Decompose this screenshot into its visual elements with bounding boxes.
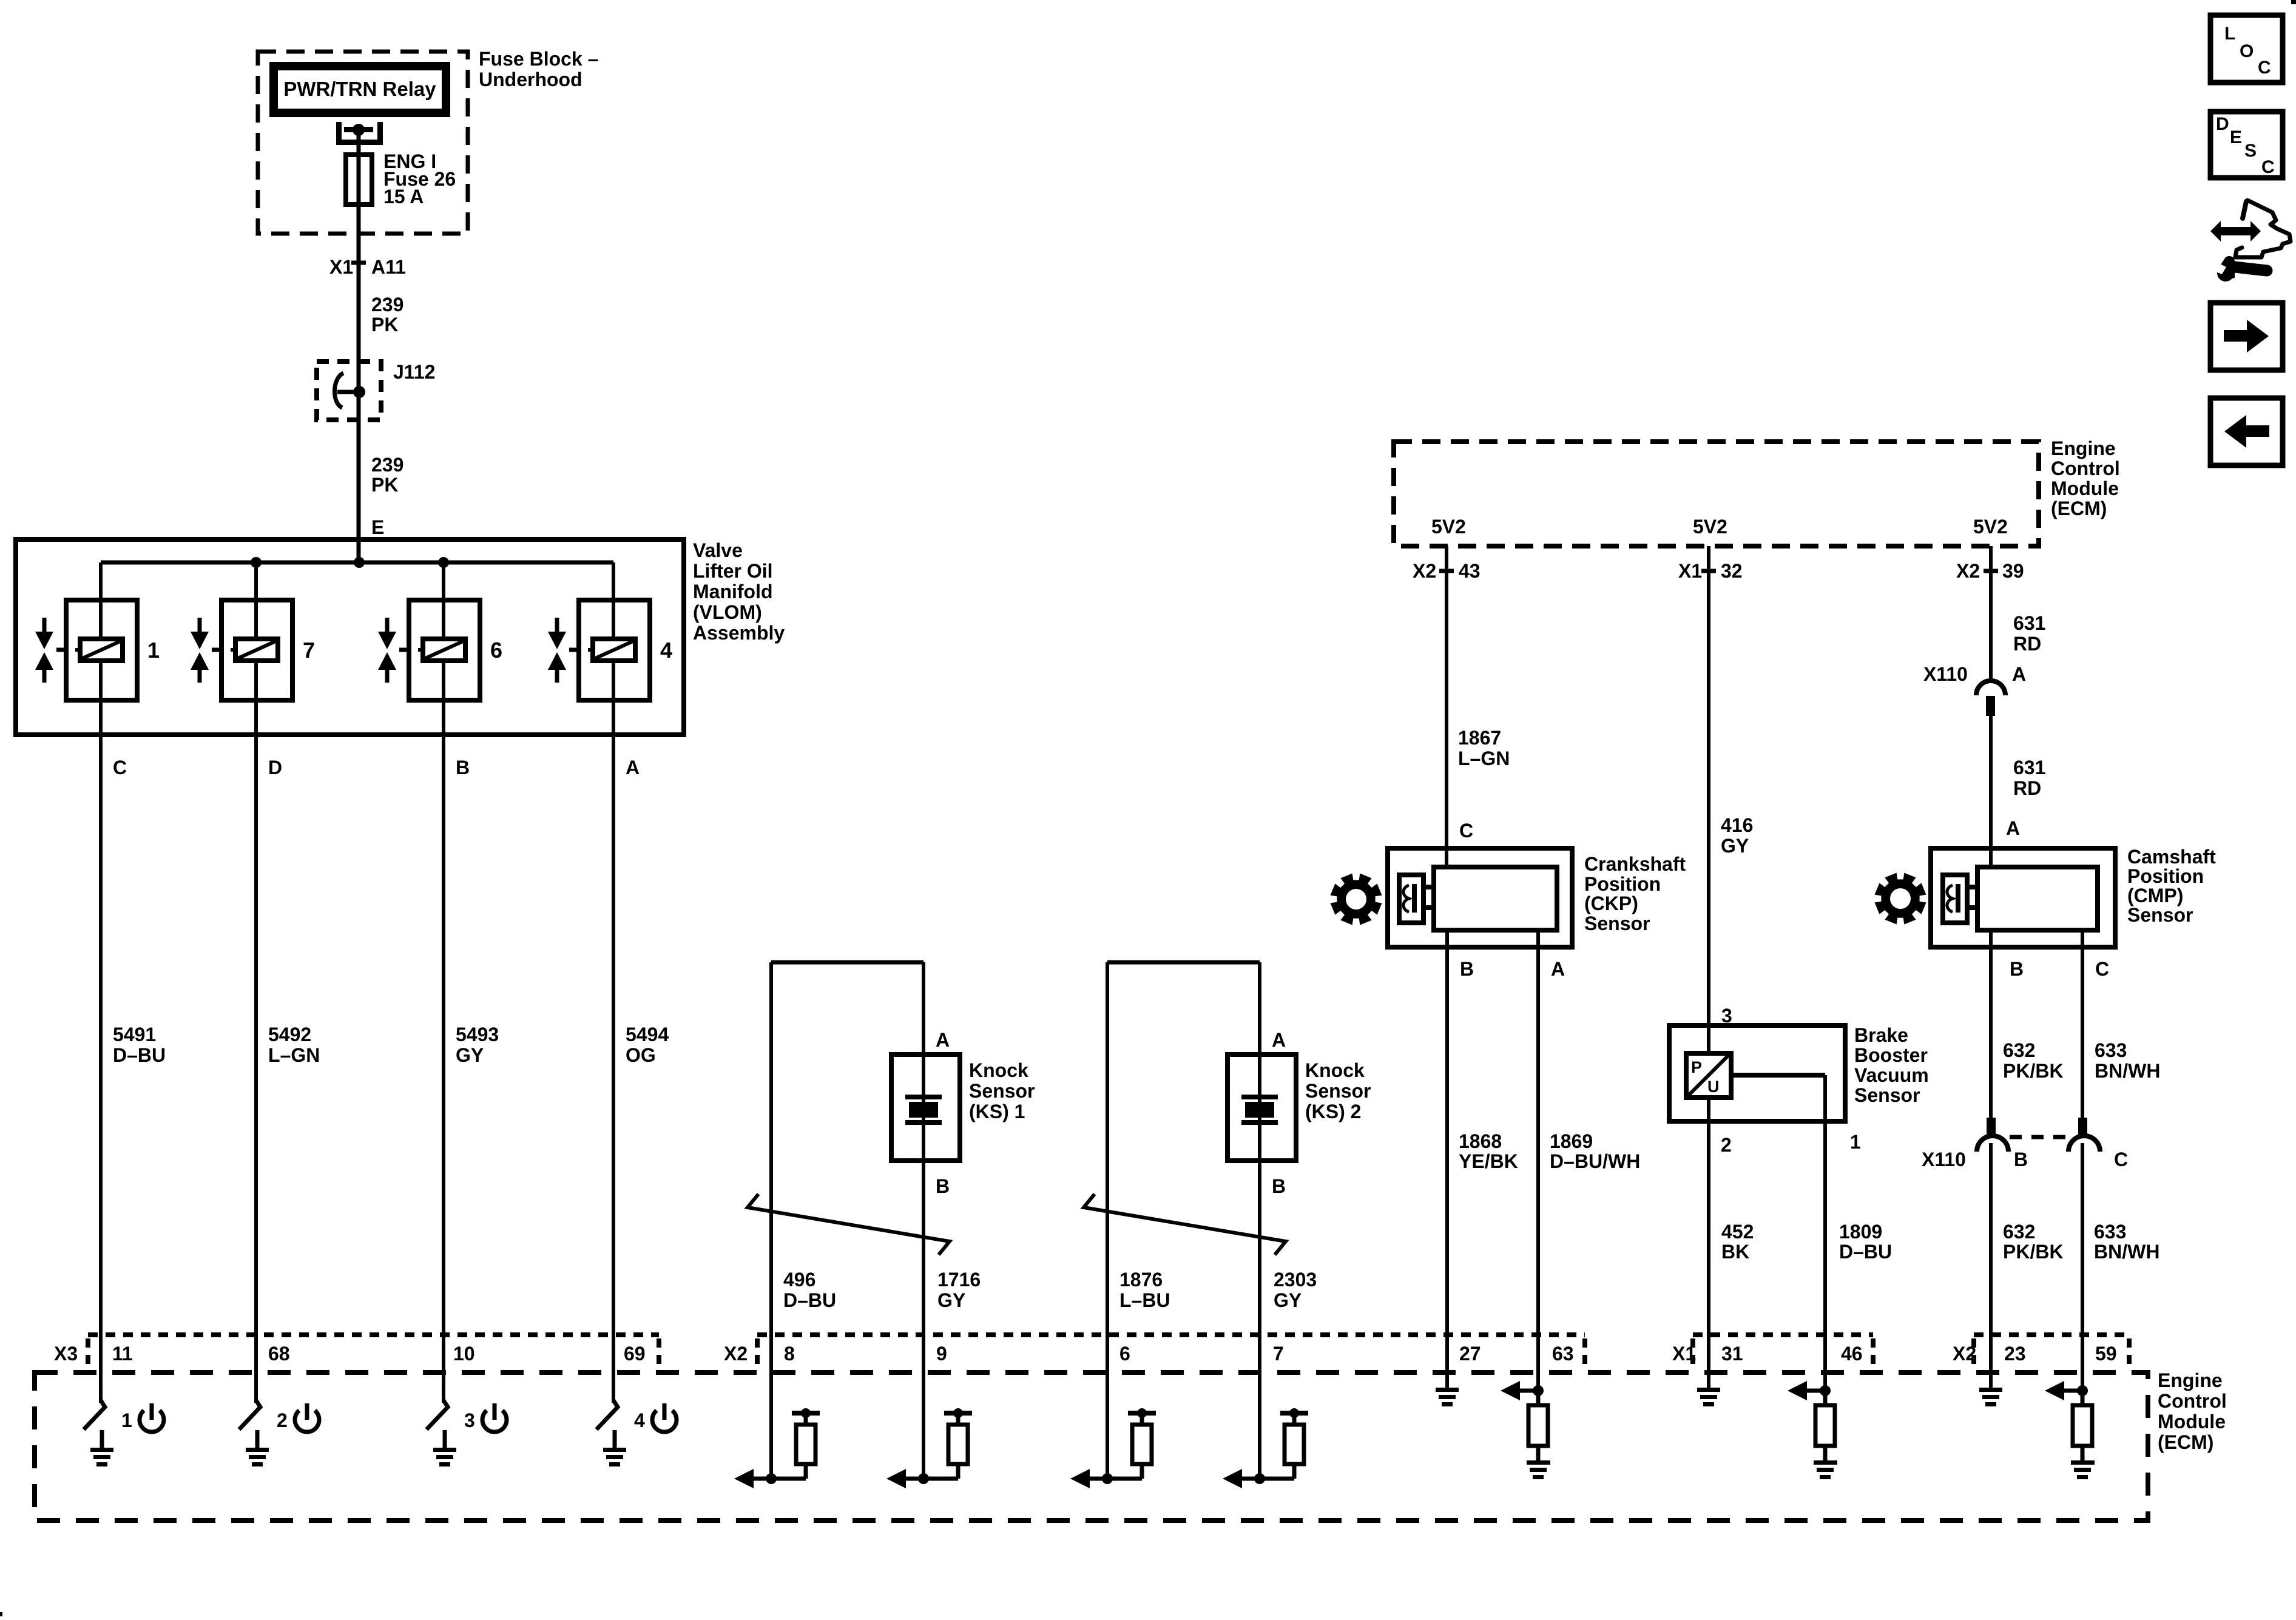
svg-text:11: 11 xyxy=(112,1343,133,1365)
svg-text:X2: X2 xyxy=(1956,560,1980,582)
switch 7 contact stub xyxy=(255,1430,260,1448)
label pin B VLOM xyxy=(456,757,470,778)
ECM connector row dotted line xyxy=(1974,1332,2129,1337)
tick X2-43 xyxy=(1439,569,1454,573)
svg-text:27: 27 xyxy=(1459,1343,1481,1365)
label X110 B C xyxy=(1922,1149,2128,1170)
svg-text:6: 6 xyxy=(490,638,502,663)
svg-text:Fuse Block –: Fuse Block – xyxy=(479,48,598,70)
label wire 1868 YE/BK xyxy=(1459,1130,1518,1172)
ECM connector row dotted line xyxy=(1693,1332,1873,1337)
label Crankshaft Position (CKP) Sensor xyxy=(1584,853,1686,934)
svg-text:X1: X1 xyxy=(1678,560,1702,582)
label wire 5493 GY xyxy=(456,1024,499,1066)
svg-text:(VLOM): (VLOM) xyxy=(693,601,762,623)
svg-text:C: C xyxy=(1459,820,1473,842)
label driver 7 xyxy=(277,1409,288,1431)
ECM bias network at x=1522 xyxy=(886,1408,972,1488)
svg-text:B: B xyxy=(936,1175,950,1197)
ground symbol pin 31 xyxy=(1697,1388,1720,1406)
ground symbol driver 4 xyxy=(603,1448,626,1466)
svg-text:9: 9 xyxy=(936,1343,947,1365)
svg-text:631: 631 xyxy=(2013,757,2045,778)
svg-text:GY: GY xyxy=(1721,835,1749,857)
svg-text:B: B xyxy=(2014,1149,2028,1170)
svg-text:633: 633 xyxy=(2095,1039,2127,1061)
icon adjust hand double arrow xyxy=(2210,221,2261,241)
label ECM pin 10 xyxy=(453,1343,475,1365)
ground symbol driver 7 xyxy=(246,1448,269,1466)
svg-text:Knock: Knock xyxy=(1305,1059,1365,1081)
label 5V2 ref 1 xyxy=(1431,516,1466,538)
svg-text:A11: A11 xyxy=(371,256,406,278)
twisted pair symbol KS2 xyxy=(1084,1194,1286,1255)
label connector X2 bottom xyxy=(724,1343,748,1365)
CKP sensor inner element box xyxy=(1434,867,1557,930)
svg-text:1869: 1869 xyxy=(1550,1130,1593,1152)
svg-text:E: E xyxy=(371,516,384,538)
svg-text:7: 7 xyxy=(1273,1343,1284,1365)
svg-text:D–BU: D–BU xyxy=(1839,1241,1892,1263)
svg-text:C: C xyxy=(113,757,127,778)
svg-text:S: S xyxy=(2244,141,2257,161)
label driver 4 xyxy=(634,1409,645,1431)
svg-text:2: 2 xyxy=(1721,1134,1732,1156)
svg-text:416: 416 xyxy=(1721,814,1753,836)
svg-text:Sensor: Sensor xyxy=(2127,904,2193,926)
svg-text:1876: 1876 xyxy=(1119,1269,1163,1291)
wire 632 PK/BK lower xyxy=(1989,1143,1993,1388)
svg-text:631: 631 xyxy=(2013,612,2045,634)
svg-text:A: A xyxy=(2006,817,2020,839)
svg-text:D–BU: D–BU xyxy=(783,1289,836,1311)
svg-text:X110: X110 xyxy=(1923,663,1968,685)
ECM connector row dotted line xyxy=(757,1332,1585,1337)
svg-text:7: 7 xyxy=(303,638,315,663)
svg-text:PWR/TRN Relay: PWR/TRN Relay xyxy=(283,78,436,100)
label wire 633 BN/WH upper xyxy=(2095,1039,2160,1082)
wire solenoid 7 vertical xyxy=(254,562,258,1403)
svg-text:O: O xyxy=(2240,41,2254,61)
svg-text:B: B xyxy=(1460,958,1474,980)
svg-text:46: 46 xyxy=(1841,1343,1863,1365)
signal network pin 63 xyxy=(1501,1381,1550,1479)
svg-text:Sensor: Sensor xyxy=(969,1080,1035,1102)
svg-text:B: B xyxy=(456,757,470,778)
svg-text:X1: X1 xyxy=(329,256,353,278)
svg-text:A: A xyxy=(936,1029,950,1051)
svg-text:Valve: Valve xyxy=(693,539,743,561)
svg-text:X3: X3 xyxy=(54,1343,78,1365)
svg-text:C: C xyxy=(2258,58,2271,78)
power symbol driver 1 xyxy=(140,1403,164,1432)
svg-text:633: 633 xyxy=(2094,1221,2126,1243)
svg-text:4: 4 xyxy=(634,1409,645,1431)
ground symbol driver 6 xyxy=(433,1448,456,1466)
X110 dashed link xyxy=(2010,1135,2066,1139)
label connector X3 xyxy=(54,1343,78,1365)
svg-text:2: 2 xyxy=(277,1409,288,1431)
knock sensor KS1 piezo element xyxy=(905,1095,942,1125)
svg-text:1809: 1809 xyxy=(1839,1221,1882,1243)
svg-text:68: 68 xyxy=(268,1343,290,1365)
connector row dotted separator xyxy=(657,1338,661,1368)
junction node on bus at E entry xyxy=(354,557,365,568)
internal bus wire xyxy=(101,561,613,565)
label solenoid 1 xyxy=(147,638,160,663)
wire 452 BK pin 2 xyxy=(1707,1098,1710,1388)
label ECM pin 59 xyxy=(2095,1343,2117,1365)
svg-text:Module: Module xyxy=(2051,478,2119,499)
label wire 239 PK upper xyxy=(371,294,403,336)
svg-text:A: A xyxy=(626,757,640,778)
label wire 631 RD upper xyxy=(2013,612,2045,655)
label solenoid 6 xyxy=(490,638,502,663)
label pin B CMP xyxy=(2010,958,2024,980)
label driver 6 xyxy=(464,1409,475,1431)
svg-text:L–GN: L–GN xyxy=(268,1044,320,1066)
label ECM top right xyxy=(2051,437,2120,519)
svg-text:X2: X2 xyxy=(1953,1343,1976,1365)
label ENG I Fuse 26 15 A xyxy=(383,150,456,208)
solenoid 1 coil xyxy=(75,639,123,661)
label Knock Sensor (KS) 2 xyxy=(1305,1059,1371,1122)
valve symbol solenoid 1 xyxy=(35,618,66,683)
svg-text:Assembly: Assembly xyxy=(693,622,785,644)
gear icon CKP xyxy=(1331,874,1382,925)
wire 1809 D-BU pin 1 xyxy=(1823,1075,1827,1391)
svg-text:1716: 1716 xyxy=(937,1269,981,1291)
connector row dotted separator xyxy=(1690,1338,1695,1368)
svg-text:Crankshaft: Crankshaft xyxy=(1584,853,1686,875)
svg-text:BK: BK xyxy=(1721,1241,1749,1263)
label pin 2 BBV xyxy=(1721,1134,1732,1156)
wire 631 RD from ECM X2-39 xyxy=(1989,546,1993,680)
svg-text:L–GN: L–GN xyxy=(1458,748,1510,769)
switch 6 contact stub xyxy=(443,1430,447,1448)
icon arrow next box xyxy=(2210,303,2283,370)
label terminal E xyxy=(371,516,384,538)
label Valve Lifter Oil Manifold (VLOM) Assembly xyxy=(693,539,785,644)
svg-text:(CMP): (CMP) xyxy=(2127,885,2183,906)
svg-text:32: 32 xyxy=(1721,560,1743,582)
label ECM pin 31 xyxy=(1721,1343,1743,1365)
label driver 1 xyxy=(121,1409,132,1431)
svg-text:1: 1 xyxy=(121,1409,132,1431)
label pin D VLOM xyxy=(268,757,282,778)
wire 632 PK/BK CMP B upper xyxy=(1989,930,1993,1118)
splice J112 hook symbol xyxy=(334,373,365,408)
inline connector X110 pin A xyxy=(1976,681,2005,716)
label wire right KS1 xyxy=(937,1269,981,1311)
knock sensor KS2 left wire xyxy=(1106,962,1109,1479)
knock sensor KS2 box xyxy=(1227,1055,1296,1161)
svg-text:Control: Control xyxy=(2051,457,2120,479)
svg-text:1868: 1868 xyxy=(1459,1130,1502,1152)
connector row dotted separator xyxy=(1871,1338,1876,1368)
svg-text:Booster: Booster xyxy=(1854,1044,1928,1066)
svg-text:A: A xyxy=(2012,663,2026,685)
label J112 xyxy=(393,361,435,383)
gear icon CMP xyxy=(1875,873,1926,925)
CKP sensor outer box xyxy=(1388,848,1572,947)
label ECM pin 7 xyxy=(1273,1343,1284,1365)
svg-text:OG: OG xyxy=(626,1044,656,1066)
svg-text:Position: Position xyxy=(2127,865,2204,887)
svg-text:Knock: Knock xyxy=(969,1059,1028,1081)
label wire 633 BN/WH lower xyxy=(2094,1221,2159,1263)
wire solenoid 1 vertical xyxy=(99,562,103,1403)
svg-text:D–BU: D–BU xyxy=(113,1044,166,1066)
label pin B KS1 xyxy=(936,1175,950,1197)
label pin B CKP xyxy=(1460,958,1474,980)
solenoid 4 coil xyxy=(588,639,635,661)
inline connector X110 pin B xyxy=(1977,1118,2008,1152)
svg-text:PK: PK xyxy=(371,474,398,496)
label pin 1 BBV xyxy=(1850,1131,1861,1153)
ground symbol pin 23 xyxy=(1979,1388,2002,1406)
label wire left KS1 xyxy=(783,1269,836,1311)
svg-text:E: E xyxy=(2230,127,2242,147)
icon DESC box xyxy=(2210,112,2283,178)
twisted pair symbol KS1 xyxy=(748,1194,950,1255)
label Fuse Block - Underhood xyxy=(479,48,598,90)
label 5V2 ref 3 xyxy=(1973,516,2008,538)
label pin C CKP xyxy=(1459,820,1473,842)
label X110 A xyxy=(1923,663,2026,685)
wire solenoid 4 vertical xyxy=(612,562,615,1403)
knock sensor KS2 piezo element xyxy=(1241,1095,1278,1125)
icon LOC box xyxy=(2210,15,2283,83)
label ECM pin 68 xyxy=(268,1343,290,1365)
svg-text:Engine: Engine xyxy=(2158,1369,2223,1391)
svg-text:Sensor: Sensor xyxy=(1854,1084,1920,1106)
label X1 32 xyxy=(1678,560,1743,582)
svg-text:C: C xyxy=(2261,157,2275,177)
ECM driver switch 4 xyxy=(596,1400,618,1429)
connector row dotted separator xyxy=(1582,1338,1587,1368)
svg-text:Sensor: Sensor xyxy=(1584,913,1650,934)
ECM bottom dashed box xyxy=(35,1372,2148,1520)
svg-text:5492: 5492 xyxy=(268,1024,311,1045)
label wire 1809 D-BU xyxy=(1839,1221,1892,1263)
svg-text:L–BU: L–BU xyxy=(1119,1289,1170,1311)
valve symbol solenoid 4 xyxy=(548,618,579,683)
tick X1-32 xyxy=(1701,569,1716,573)
CKP pickup stubs xyxy=(1423,887,1434,908)
splice J112 dashed box xyxy=(317,362,381,420)
svg-text:2303: 2303 xyxy=(1274,1269,1317,1291)
svg-text:D: D xyxy=(2216,114,2229,134)
solenoid 6 coil xyxy=(418,639,465,661)
icon wrench xyxy=(2209,256,2267,282)
label pin B KS2 xyxy=(1272,1175,1286,1197)
svg-text:A: A xyxy=(1551,958,1565,980)
label wire left KS2 xyxy=(1119,1269,1170,1311)
svg-text:PK/BK: PK/BK xyxy=(2003,1060,2064,1082)
label ECM bottom right xyxy=(2158,1369,2227,1453)
connector row dotted separator xyxy=(2127,1338,2132,1368)
wire solenoid 6 vertical xyxy=(442,562,445,1403)
label ECM pin 69 xyxy=(624,1343,646,1365)
ECM top dashed box xyxy=(1394,442,2039,546)
svg-text:1: 1 xyxy=(147,638,160,663)
solenoid 1 box xyxy=(66,600,137,700)
wire 631 RD lower xyxy=(1989,716,1993,867)
svg-text:632: 632 xyxy=(2003,1039,2035,1061)
power symbol driver 7 xyxy=(295,1403,319,1432)
power symbol driver 4 xyxy=(652,1403,677,1432)
CMP pickup stubs xyxy=(1967,887,1977,908)
knock sensor KS1 left wire xyxy=(769,962,773,1479)
solenoid 7 box xyxy=(221,600,292,700)
ECM connector row dotted line xyxy=(88,1332,659,1337)
svg-text:A: A xyxy=(1272,1029,1286,1051)
svg-text:8: 8 xyxy=(784,1343,795,1365)
ground symbol pin 27 xyxy=(1436,1388,1459,1406)
tick connector X1 pin A11 xyxy=(351,261,366,265)
svg-text:(KS) 1: (KS) 1 xyxy=(969,1101,1025,1122)
wire 633 BN/WH CMP C upper xyxy=(2081,930,2084,1118)
svg-text:Vacuum: Vacuum xyxy=(1854,1064,1929,1086)
svg-text:C: C xyxy=(2114,1149,2128,1170)
svg-text:(ECM): (ECM) xyxy=(2158,1431,2213,1453)
label solenoid 7 xyxy=(303,638,315,663)
svg-text:1: 1 xyxy=(1850,1131,1861,1153)
label wire 632 PK/BK upper xyxy=(2003,1039,2064,1082)
page corner mark bottom left xyxy=(0,1612,2,1616)
svg-text:31: 31 xyxy=(1721,1343,1743,1365)
svg-text:GY: GY xyxy=(937,1289,965,1311)
icon adjust hand outline xyxy=(2235,200,2291,257)
svg-text:X110: X110 xyxy=(1922,1149,1966,1170)
svg-text:5V2: 5V2 xyxy=(1693,516,1727,538)
label wire 632 PK/BK lower xyxy=(2003,1221,2064,1263)
svg-text:U: U xyxy=(1707,1078,1720,1096)
svg-text:P: P xyxy=(1691,1058,1702,1076)
label wire 416 GY xyxy=(1721,814,1753,857)
svg-text:Engine: Engine xyxy=(2051,437,2116,459)
svg-text:39: 39 xyxy=(2002,560,2024,582)
knock sensor KS1 loop top wire xyxy=(771,960,923,965)
label X2 39 xyxy=(1956,560,2024,582)
label 5V2 ref 2 xyxy=(1693,516,1727,538)
label wire 239 PK lower xyxy=(371,454,403,496)
inline connector X110 pin C xyxy=(2068,1118,2100,1152)
label pin A VLOM xyxy=(626,757,640,778)
svg-text:YE/BK: YE/BK xyxy=(1459,1150,1518,1172)
label ECM pin 27 xyxy=(1459,1343,1481,1365)
label ECM pin 11 xyxy=(112,1343,133,1365)
label ECM pin 63 xyxy=(1552,1343,1574,1365)
relay K-PWR/TRN box xyxy=(269,62,450,117)
svg-text:43: 43 xyxy=(1459,560,1481,582)
label pin A KS2 xyxy=(1272,1029,1286,1051)
icon arrow back box xyxy=(2210,398,2283,465)
ECM driver switch 7 xyxy=(239,1400,260,1429)
label pin A CMP xyxy=(2006,817,2020,839)
svg-text:B: B xyxy=(2010,958,2024,980)
label pin 3 BBV xyxy=(1721,1005,1732,1027)
svg-text:GY: GY xyxy=(1274,1289,1302,1311)
CMP sensor inner element box xyxy=(1977,867,2098,930)
svg-text:5494: 5494 xyxy=(626,1024,669,1045)
label X2 43 xyxy=(1413,560,1481,582)
svg-text:D–BU/WH: D–BU/WH xyxy=(1550,1150,1640,1172)
label pin C VLOM xyxy=(113,757,127,778)
label wire 1869 D-BU/WH xyxy=(1550,1130,1640,1172)
svg-text:452: 452 xyxy=(1721,1221,1754,1243)
svg-text:BN/WH: BN/WH xyxy=(2095,1060,2160,1082)
BBV P/U transducer symbol xyxy=(1686,1053,1731,1098)
solenoid 6 box xyxy=(409,600,480,700)
wire 633 BN/WH lower xyxy=(2081,1143,2084,1391)
switch 1 contact stub xyxy=(100,1430,104,1448)
svg-text:23: 23 xyxy=(2004,1343,2026,1365)
wire 1868 YE/BK CKP B xyxy=(1445,930,1449,1388)
svg-text:(KS) 2: (KS) 2 xyxy=(1305,1101,1361,1122)
label wire 452 BK xyxy=(1721,1221,1754,1263)
wire 416 GY from ECM X1-32 xyxy=(1707,546,1710,1053)
svg-text:GY: GY xyxy=(456,1044,484,1066)
label ECM pin 9 xyxy=(936,1343,947,1365)
svg-text:Control: Control xyxy=(2158,1390,2227,1412)
svg-text:5V2: 5V2 xyxy=(1973,516,2008,538)
wire 239 PK from relay to VLOM xyxy=(357,130,361,562)
ECM driver switch 6 xyxy=(427,1400,448,1429)
label connector X2 bottom right xyxy=(1953,1343,1976,1365)
CKP pickup connector box xyxy=(1399,875,1423,923)
svg-text:5493: 5493 xyxy=(456,1024,499,1045)
signal network pin 59 xyxy=(2045,1381,2095,1479)
svg-text:Module: Module xyxy=(2158,1411,2226,1433)
svg-text:63: 63 xyxy=(1552,1343,1574,1365)
label pin C CMP xyxy=(2095,958,2109,980)
svg-text:5491: 5491 xyxy=(113,1024,156,1045)
label wire 5491 D–BU xyxy=(113,1024,166,1066)
label connector X1 bottom xyxy=(1672,1343,1696,1365)
solenoid 4 box xyxy=(579,600,650,700)
label solenoid 4 xyxy=(660,638,672,663)
svg-text:Position: Position xyxy=(1584,873,1661,895)
junction node on bus at D xyxy=(251,557,262,568)
connector row dotted separator xyxy=(86,1338,90,1368)
valve symbol solenoid 6 xyxy=(378,618,409,683)
CMP pickup connector box xyxy=(1943,875,1967,923)
ECM bias network at x=1825 xyxy=(1070,1408,1156,1488)
power symbol driver 6 xyxy=(482,1403,507,1432)
svg-text:5V2: 5V2 xyxy=(1431,516,1466,538)
label wire 5492 L–GN xyxy=(268,1024,320,1066)
svg-text:RD: RD xyxy=(2013,777,2041,799)
connector row dotted separator xyxy=(755,1338,760,1368)
wire 1867 L-GN from ECM X2-43 xyxy=(1445,546,1448,867)
ECM bias network at x=2076 xyxy=(1223,1408,1308,1488)
ECM driver switch 1 xyxy=(84,1400,105,1429)
svg-text:J112: J112 xyxy=(393,361,435,383)
svg-text:Brake: Brake xyxy=(1854,1024,1908,1046)
svg-text:D: D xyxy=(268,757,282,778)
fuse block underhood dashed box xyxy=(258,52,468,234)
svg-text:Manifold: Manifold xyxy=(693,581,773,602)
fuse F26 ENG I 15A xyxy=(346,155,372,204)
svg-text:Camshaft: Camshaft xyxy=(2127,846,2216,868)
svg-text:15 A: 15 A xyxy=(383,186,424,208)
label ECM pin 8 xyxy=(784,1343,795,1365)
label pin A KS1 xyxy=(936,1029,950,1051)
wire 1869 D-BU/WH CKP A xyxy=(1536,930,1540,1391)
svg-text:L: L xyxy=(2224,24,2235,44)
